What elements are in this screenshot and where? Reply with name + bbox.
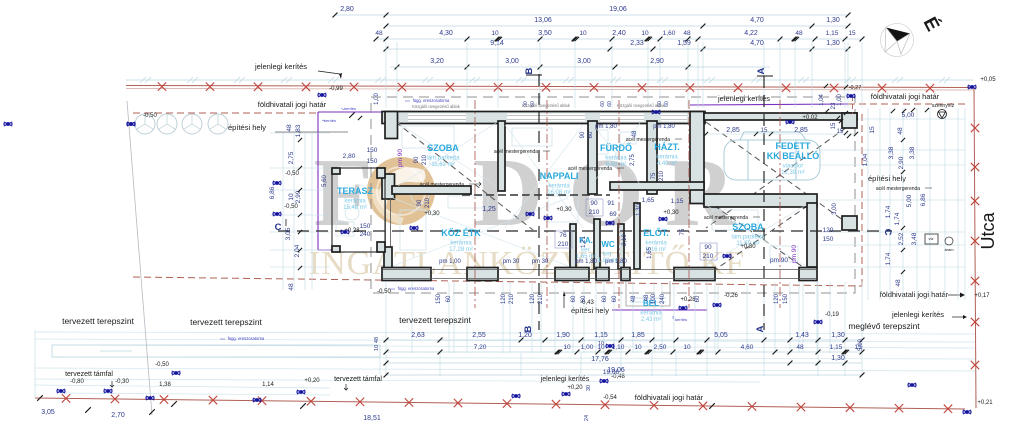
svg-text:acél mestergerenda: acél mestergerenda	[420, 182, 464, 188]
wall vertical hazt-east	[690, 112, 704, 204]
svg-text:16,08 m²: 16,08 m²	[547, 190, 571, 196]
svg-text:1,85: 1,85	[631, 332, 645, 339]
svg-text:1,20: 1,20	[518, 332, 532, 339]
svg-text:10: 10	[563, 344, 571, 351]
svg-text:60: 60	[664, 101, 670, 107]
svg-text:kerámia: kerámia	[450, 241, 472, 247]
svg-text:1,30: 1,30	[826, 40, 840, 47]
axis line red 1	[474, 100, 476, 308]
svg-text:9,14: 9,14	[490, 40, 504, 47]
building envelope dashed bottom	[133, 277, 862, 286]
svg-text:6,86: 6,86	[269, 186, 276, 199]
svg-text:2,75: 2,75	[288, 151, 295, 164]
svg-text:69: 69	[609, 211, 617, 218]
svg-text:HÁZT.: HÁZT.	[654, 142, 680, 152]
svg-text:90: 90	[704, 244, 712, 251]
extension lines top	[385, 42, 387, 108]
svg-text:-0,50: -0,50	[285, 171, 299, 177]
svg-text:12,39 m²: 12,39 m²	[781, 170, 805, 176]
svg-text:-0,19: -0,19	[825, 312, 839, 318]
bottom wall window lines	[382, 269, 817, 271]
svg-text:210: 210	[425, 197, 431, 208]
svg-text:földhivatali jogi határ: földhivatali jogi határ	[258, 100, 327, 109]
svg-text:48: 48	[632, 130, 638, 137]
survey marker far left	[4, 122, 12, 126]
wall elot west	[634, 203, 640, 269]
svg-text:150: 150	[783, 293, 789, 304]
svg-text:+0,17: +0,17	[974, 293, 990, 299]
svg-text:+0,20: +0,20	[567, 385, 583, 391]
red dashed corner vertical	[852, 96, 854, 114]
furniture nappali	[512, 128, 552, 146]
svg-text:3,05: 3,05	[41, 409, 55, 416]
svg-text:kerámia: kerámia	[605, 156, 627, 162]
svg-text:3,38: 3,38	[888, 146, 895, 159]
svg-text:földhivatali jogi határ: földhivatali jogi határ	[635, 393, 704, 402]
right boundary fence vertical	[974, 88, 976, 408]
svg-text:210: 210	[422, 154, 428, 165]
viz aram symbols	[925, 234, 938, 244]
svg-text:10: 10	[374, 345, 380, 351]
svg-text:+0,02: +0,02	[802, 115, 818, 121]
svg-text:150: 150	[367, 158, 378, 165]
wall mid horizontal left	[392, 186, 471, 194]
svg-text:pm 1,00: pm 1,00	[439, 259, 461, 265]
svg-text:48: 48	[375, 30, 383, 37]
left plot boundary line	[127, 101, 152, 415]
svg-text:10: 10	[683, 344, 691, 351]
svg-text:kerámia: kerámia	[645, 241, 667, 247]
svg-text:10: 10	[641, 30, 649, 37]
svg-text:2,40: 2,40	[612, 30, 626, 37]
left bottom extension lines	[34, 330, 36, 398]
svg-text:szennyvíz: szennyvíz	[932, 103, 955, 109]
north arrow compass	[881, 24, 914, 57]
svg-text:2,33: 2,33	[630, 40, 644, 47]
carport south post	[842, 216, 857, 230]
svg-text:-0,26: -0,26	[724, 293, 738, 299]
svg-text:120: 120	[501, 293, 507, 304]
top dimension line 1	[335, 14, 848, 16]
svg-text:pm 1,80: pm 1,80	[605, 259, 627, 265]
svg-text:kerítés: kerítés	[344, 106, 356, 111]
svg-text:3,20: 3,20	[430, 58, 444, 65]
wall szoba2 north	[704, 194, 817, 207]
svg-text:15: 15	[761, 128, 768, 134]
svg-text:acél mestergerenda: acél mestergerenda	[704, 215, 748, 221]
svg-text:tervezett terepszint: tervezett terepszint	[399, 315, 471, 325]
terasz wall stubs	[377, 168, 385, 178]
svg-text:1,38: 1,38	[159, 382, 171, 388]
svg-text:1,74: 1,74	[894, 212, 901, 225]
svg-text:18,51: 18,51	[363, 415, 381, 422]
svg-text:1,83: 1,83	[295, 124, 302, 137]
svg-text:1,74: 1,74	[885, 252, 892, 265]
west wall stub	[384, 247, 392, 269]
svg-text:függ. ereszcsatorna: függ. ereszcsatorna	[413, 98, 450, 103]
top dimension line 3	[376, 38, 862, 40]
svg-text:2,43 m²: 2,43 m²	[641, 317, 661, 323]
svg-text:-0,54: -0,54	[603, 395, 617, 401]
szoba2 diagonal 2	[706, 200, 816, 276]
svg-text:C: C	[882, 229, 893, 236]
svg-text:-0,80: -0,80	[70, 379, 84, 385]
svg-text:lam.parketta: lam.parketta	[731, 235, 765, 241]
furniture kozetk	[400, 210, 426, 250]
extension lines left side	[270, 132, 330, 134]
jelenlegi kerites fence line top	[126, 86, 974, 88]
svg-text:15: 15	[837, 129, 844, 135]
svg-text:pm 1,80: pm 1,80	[595, 124, 617, 130]
svg-text:60: 60	[612, 295, 618, 302]
svg-text:4,22: 4,22	[744, 30, 758, 37]
svg-text:tervezett terepszint: tervezett terepszint	[190, 317, 262, 327]
svg-text:-0,50: -0,50	[377, 289, 391, 295]
wall vertical nappali-furdo	[588, 121, 597, 194]
svg-text:23: 23	[831, 102, 837, 109]
top axis dimension line 5	[390, 66, 770, 68]
svg-text:48: 48	[796, 344, 804, 351]
svg-text:90: 90	[414, 156, 420, 163]
svg-text:48: 48	[683, 30, 691, 37]
svg-text:120: 120	[530, 293, 536, 304]
svg-text:48: 48	[895, 279, 902, 287]
svg-text:-0,50: -0,50	[143, 113, 157, 119]
svg-text:1,30: 1,30	[831, 355, 845, 362]
svg-text:1,04: 1,04	[862, 153, 869, 166]
svg-text:kerámia: kerámia	[656, 155, 678, 161]
svg-text:+0,21: +0,21	[977, 400, 993, 406]
wall vertical szoba1-nappali	[498, 121, 505, 191]
door size boxes	[586, 199, 603, 216]
svg-text:2,63: 2,63	[411, 332, 425, 339]
svg-text:kerámia: kerámia	[640, 311, 662, 317]
svg-text:kerámia: kerámia	[344, 199, 366, 205]
svg-text:48: 48	[644, 294, 650, 301]
svg-text:240: 240	[660, 293, 666, 304]
bottom wall piers	[382, 268, 431, 281]
svg-text:+0,30: +0,30	[663, 210, 679, 216]
svg-text:24: 24	[584, 415, 590, 421]
svg-text:120: 120	[774, 293, 780, 304]
svg-text:5,00: 5,00	[906, 194, 913, 207]
svg-text:áram: áram	[944, 247, 954, 252]
foldhivatali jogi hatar dashed top right	[848, 103, 967, 105]
svg-text:60: 60	[607, 101, 613, 107]
svg-text:acél mestergerenda: acél mestergerenda	[494, 149, 538, 155]
svg-text:B: B	[524, 67, 535, 74]
svg-text:KK BEÁLLÓ: KK BEÁLLÓ	[767, 150, 820, 161]
szoba2 diagonal 1	[706, 200, 816, 276]
svg-text:60: 60	[571, 295, 577, 302]
svg-text:kerámia: kerámia	[548, 184, 570, 190]
svg-text:1,65: 1,65	[647, 247, 653, 259]
svg-text:acél mestergerenda: acél mestergerenda	[568, 166, 612, 172]
svg-text:víz: víz	[928, 236, 933, 241]
svg-text:A: A	[755, 325, 766, 332]
svg-text:SZOBA: SZOBA	[427, 143, 459, 153]
right ticks	[891, 109, 895, 113]
svg-text:1,74: 1,74	[885, 205, 892, 218]
bottom dim line 3	[386, 362, 862, 364]
svg-text:90: 90	[590, 200, 598, 207]
svg-text:10: 10	[579, 30, 587, 37]
svg-text:1,65: 1,65	[642, 197, 655, 204]
svg-text:földhivatali jogi határ: földhivatali jogi határ	[871, 92, 940, 101]
svg-text:építési hely: építési hely	[571, 306, 609, 315]
svg-text:+0,30: +0,30	[740, 244, 756, 250]
dim line 2,85 carport	[706, 133, 856, 135]
carport diagonal 2	[706, 122, 854, 228]
svg-text:6,86: 6,86	[920, 193, 927, 206]
section line A vertical	[763, 76, 765, 330]
svg-text:TERASZ: TERASZ	[337, 186, 374, 196]
svg-text:2,10: 2,10	[622, 234, 628, 246]
svg-text:lam.parketta: lam.parketta	[426, 156, 460, 162]
svg-text:tervezett támfal: tervezett támfal	[65, 371, 113, 378]
building envelope dashed right	[861, 112, 863, 286]
svg-text:7,20: 7,20	[474, 344, 487, 351]
svg-text:100: 100	[651, 293, 657, 304]
section line C horizontal	[278, 230, 892, 232]
svg-text:3,38: 3,38	[909, 146, 916, 159]
svg-text:4,60: 4,60	[741, 344, 754, 351]
svg-text:1,15: 1,15	[671, 198, 684, 205]
svg-text:210: 210	[589, 209, 600, 216]
svg-text:1,15: 1,15	[826, 30, 839, 37]
svg-text:3,00: 3,00	[505, 58, 519, 65]
svg-text:210: 210	[538, 293, 544, 304]
svg-text:Utca: Utca	[978, 212, 998, 250]
wall vertical furdo-hazt	[647, 121, 657, 194]
svg-text:C: C	[275, 222, 282, 233]
svg-text:3,48: 3,48	[911, 232, 918, 245]
svg-text:-0,99: -0,99	[329, 86, 343, 92]
bottom right survey markers	[814, 320, 822, 324]
svg-text:ker.: ker.	[603, 252, 613, 258]
room diagonal crosses	[398, 123, 496, 186]
svg-text:10: 10	[491, 30, 499, 37]
svg-text:2,90: 2,90	[898, 156, 905, 169]
svg-text:19,06: 19,06	[609, 6, 627, 13]
svg-text:2,52: 2,52	[898, 232, 905, 245]
svg-text:48: 48	[374, 337, 380, 343]
svg-text:kerítés: kerítés	[675, 317, 687, 322]
car outline carport	[724, 132, 820, 180]
svg-text:FEDETT: FEDETT	[776, 141, 812, 151]
beam dashed line nappali	[462, 194, 610, 196]
svg-text:1,43: 1,43	[795, 332, 809, 339]
carport corner post	[842, 113, 857, 128]
window gaps top wall	[408, 114, 466, 122]
furniture terasz	[345, 206, 359, 220]
svg-text:+0,05: +0,05	[980, 77, 996, 83]
wall mid horizontal right	[610, 182, 704, 190]
svg-text:1,15: 1,15	[594, 332, 608, 339]
svg-text:1,30: 1,30	[831, 332, 845, 339]
extension lines right side	[820, 118, 965, 120]
svg-text:-0,50: -0,50	[284, 204, 298, 210]
svg-text:pm 30: pm 30	[532, 259, 549, 265]
svg-text:2,90: 2,90	[650, 58, 664, 65]
wall lower interior ka-wc	[570, 224, 576, 269]
svg-text:jelenlegi kerítés: jelenlegi kerítés	[254, 62, 307, 71]
terasz outline	[332, 168, 385, 252]
carport top edge	[704, 113, 857, 120]
purple property boundary	[318, 111, 385, 113]
svg-text:13,06: 13,06	[534, 17, 552, 24]
svg-text:150: 150	[367, 147, 378, 154]
svg-text:acél mestergerenda: acél mestergerenda	[876, 186, 920, 192]
svg-text:60: 60	[588, 131, 594, 138]
svg-text:1,04: 1,04	[819, 94, 825, 106]
bottom fence line	[35, 398, 965, 409]
svg-text:210: 210	[509, 293, 515, 304]
top dimension line 4	[386, 48, 848, 50]
svg-text:48: 48	[631, 295, 637, 302]
svg-text:Közgáló üvegezésű ablak: Közgáló üvegezésű ablak	[412, 104, 461, 109]
svg-text:5,00: 5,00	[902, 112, 915, 119]
wall szoba2 east	[807, 203, 817, 267]
svg-text:2,55: 2,55	[472, 332, 486, 339]
svg-text:4,70: 4,70	[750, 40, 764, 47]
wall left pier mid	[382, 174, 395, 199]
terrain contour lines	[35, 332, 975, 334]
svg-text:+0,20: +0,20	[304, 378, 320, 384]
svg-text:viacolor: viacolor	[783, 164, 804, 170]
bottom dim line 2	[386, 351, 862, 353]
svg-text:Közgáló üvegezésű ablak: Közgáló üvegezésű ablak	[617, 103, 666, 108]
svg-text:pm 90: pm 90	[770, 257, 788, 264]
svg-text:76: 76	[559, 232, 567, 239]
purple boundary bottom segment	[612, 309, 707, 311]
marker corner -0,27	[847, 94, 855, 98]
svg-text:1,00: 1,00	[581, 344, 594, 351]
wall top band main house	[382, 112, 705, 124]
svg-text:90: 90	[417, 199, 423, 206]
svg-text:tervezett terepszint: tervezett terepszint	[62, 316, 134, 326]
svg-text:5,60: 5,60	[322, 175, 328, 187]
bottom dim line 4	[386, 374, 862, 376]
svg-text:2,85: 2,85	[794, 127, 808, 134]
furniture szoba2	[712, 210, 758, 230]
svg-text:5,00: 5,00	[858, 339, 864, 351]
svg-text:210: 210	[558, 241, 569, 248]
bottom dim line 1	[386, 339, 862, 341]
svg-text:jelenlegi kerítés: jelenlegi kerítés	[540, 376, 590, 383]
terrain lines lower left	[35, 385, 330, 388]
svg-text:3,50: 3,50	[538, 30, 552, 37]
svg-text:1,15: 1,15	[830, 344, 843, 351]
svg-text:építési hely: építési hely	[868, 174, 906, 183]
svg-text:15: 15	[848, 30, 856, 37]
svg-text:SZOBA: SZOBA	[732, 222, 764, 232]
watermark FODOR logo	[313, 139, 736, 246]
svg-text:1,30: 1,30	[826, 17, 840, 24]
svg-text:+0,30: +0,30	[424, 211, 440, 217]
svg-text:1,60: 1,60	[663, 30, 676, 37]
svg-text:17,76: 17,76	[591, 356, 609, 363]
svg-text:3,00: 3,00	[832, 203, 838, 215]
svg-text:10: 10	[634, 344, 642, 351]
svg-text:60: 60	[695, 295, 701, 302]
fence hatch line	[126, 79, 973, 81]
svg-text:1,30: 1,30	[636, 204, 642, 216]
svg-text:60: 60	[600, 101, 606, 107]
svg-text:3,05: 3,05	[285, 227, 292, 240]
svg-text:48: 48	[897, 127, 904, 135]
svg-text:17,28 m²: 17,28 m²	[449, 247, 473, 253]
svg-text:210: 210	[703, 253, 714, 260]
svg-text:240: 240	[360, 231, 371, 238]
svg-text:Közgáló üvegezésű ablak: Közgáló üvegezésű ablak	[522, 103, 571, 108]
entry porch BEL	[625, 281, 627, 306]
svg-text:2,85: 2,85	[726, 127, 740, 134]
svg-text:függ. ereszcsatorna: függ. ereszcsatorna	[398, 286, 435, 291]
svg-text:jelenlegi kerítés: jelenlegi kerítés	[717, 94, 770, 103]
svg-text:építési hely: építési hely	[228, 123, 266, 132]
svg-text:-0,27: -0,27	[849, 85, 862, 91]
top dimension line 2	[386, 25, 848, 27]
svg-text:pm 30: pm 30	[503, 259, 520, 265]
svg-text:pm 1,80: pm 1,80	[575, 259, 597, 265]
svg-text:WC: WC	[601, 240, 615, 249]
svg-text:60: 60	[446, 295, 452, 302]
svg-text:1,59: 1,59	[677, 40, 691, 47]
survey marker left trees	[127, 122, 135, 126]
svg-text:pm 90: pm 90	[791, 245, 798, 263]
svg-text:48: 48	[795, 30, 803, 37]
svg-text:30: 30	[586, 385, 592, 391]
svg-text:91: 91	[607, 200, 615, 207]
svg-text:2,75: 2,75	[630, 154, 636, 166]
svg-text:1,25: 1,25	[482, 206, 496, 213]
svg-text:75: 75	[680, 228, 686, 235]
left small ticks	[298, 138, 302, 142]
svg-text:15,48 m²: 15,48 m²	[343, 205, 367, 211]
survey markers plan	[318, 93, 326, 97]
section line B vertical	[538, 74, 540, 330]
trees row	[135, 114, 155, 134]
svg-text:pm 90: pm 90	[397, 149, 404, 167]
svg-text:1,90: 1,90	[556, 332, 570, 339]
svg-text:2,70: 2,70	[111, 412, 125, 419]
furniture szoba1	[402, 126, 454, 148]
svg-text:48: 48	[286, 124, 293, 132]
corner ticks	[824, 84, 828, 88]
svg-text:10: 10	[288, 193, 295, 201]
svg-text:FÜRDŐ: FÜRDŐ	[600, 142, 632, 153]
bottom survey markers	[57, 389, 65, 393]
svg-text:meglévő terepszint: meglévő terepszint	[848, 321, 920, 331]
svg-text:1,21: 1,21	[581, 236, 587, 248]
svg-text:jelenlegi kerítés: jelenlegi kerítés	[891, 310, 944, 319]
svg-text:3,00: 3,00	[577, 58, 591, 65]
svg-text:pm 1,80: pm 1,80	[653, 124, 675, 130]
svg-text:150: 150	[360, 223, 371, 230]
svg-text:5,05: 5,05	[714, 332, 728, 339]
foldhivatali jogi hatar dashed top left	[133, 112, 318, 114]
retaining wall plan rectangle	[52, 345, 380, 357]
svg-text:+0,28: +0,28	[680, 297, 696, 303]
furniture furdo	[592, 130, 608, 154]
svg-text:-0,30: -0,30	[115, 379, 129, 385]
svg-text:15: 15	[869, 126, 876, 134]
svg-text:2,50: 2,50	[654, 344, 667, 351]
roof eaves dashed outline	[371, 97, 855, 293]
svg-text:+0,30: +0,30	[556, 207, 572, 213]
svg-text:19,06: 19,06	[603, 369, 620, 376]
